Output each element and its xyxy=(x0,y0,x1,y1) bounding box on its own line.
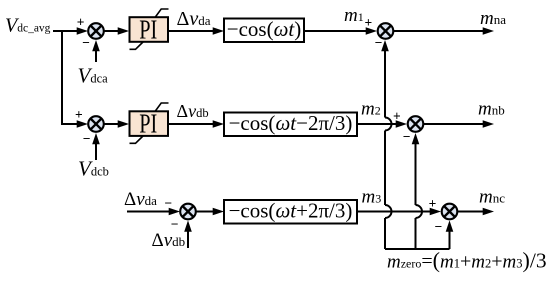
svg-text:+: + xyxy=(393,108,401,123)
svg-text:Vdcb: Vdcb xyxy=(78,157,109,181)
svg-text:Δvda: Δvda xyxy=(124,189,157,210)
svg-text:−cos(ωt+2π/3): −cos(ωt+2π/3) xyxy=(229,199,353,223)
svg-text:Δvdb: Δvdb xyxy=(177,101,209,121)
svg-text:mna: mna xyxy=(480,8,506,29)
svg-text:Δvda: Δvda xyxy=(177,8,211,30)
svg-text:m3: m3 xyxy=(362,187,382,208)
svg-text:mnc: mnc xyxy=(479,187,505,208)
svg-text:−: − xyxy=(435,219,443,234)
svg-text:Δvdb: Δvdb xyxy=(152,230,186,251)
svg-text:mzero=(m1+m2+m3)/3: mzero=(m1+m2+m3)/3 xyxy=(387,248,547,273)
svg-text:−: − xyxy=(82,35,90,50)
svg-text:+: + xyxy=(77,15,85,30)
svg-text:−cos(ωt−2π/3): −cos(ωt−2π/3) xyxy=(229,111,353,135)
svg-text:m1: m1 xyxy=(344,5,364,26)
svg-text:PI: PI xyxy=(139,13,157,44)
svg-text:+: + xyxy=(75,107,83,122)
svg-text:−: − xyxy=(375,35,383,50)
svg-text:+: + xyxy=(429,196,437,211)
svg-text:Vdca: Vdca xyxy=(78,64,109,88)
svg-text:−: − xyxy=(164,195,172,210)
svg-text:m2: m2 xyxy=(361,99,381,120)
svg-text:−: − xyxy=(83,131,91,146)
svg-text:PI: PI xyxy=(139,107,157,138)
svg-text:+: + xyxy=(364,15,372,30)
svg-text:−cos(ωt): −cos(ωt) xyxy=(227,17,302,41)
svg-text:Vdc_avg: Vdc_avg xyxy=(5,15,51,37)
svg-text:−: − xyxy=(403,129,411,144)
svg-text:mnb: mnb xyxy=(478,99,505,120)
